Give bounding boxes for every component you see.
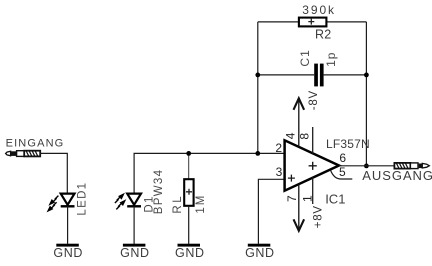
svg-text:GND: GND <box>245 246 275 260</box>
svg-text:1p: 1p <box>324 52 338 67</box>
pin 4 negative supply arrow <box>294 98 305 147</box>
svg-text:+8V: +8V <box>313 205 325 228</box>
op-amp input plus mark <box>288 175 295 182</box>
connector X1 input jack <box>6 151 41 157</box>
capacitor C1 <box>298 49 338 86</box>
D1 light arrows (incoming) <box>115 194 125 209</box>
svg-text:2: 2 <box>275 141 282 155</box>
svg-text:AUSGANG: AUSGANG <box>362 168 432 183</box>
op-amp IC1 LF357N <box>275 132 370 206</box>
resistor R2 <box>299 3 336 41</box>
ground GND3 <box>175 244 205 260</box>
wire RL top lead <box>188 153 190 179</box>
wire D1 to ground <box>133 206 135 244</box>
svg-text:GND: GND <box>120 246 150 260</box>
wire pin3 to ground <box>258 179 284 244</box>
op-amp center plus mark <box>309 162 317 170</box>
LED LED1 <box>48 182 89 216</box>
svg-text:GND: GND <box>175 246 205 260</box>
svg-text:4: 4 <box>283 132 297 139</box>
wire LED1 to ground <box>67 206 69 244</box>
svg-text:7: 7 <box>285 195 299 202</box>
svg-text:LF357N: LF357N <box>326 137 370 151</box>
svg-text:IC1: IC1 <box>325 191 345 206</box>
svg-text:5: 5 <box>339 165 346 179</box>
svg-text:GND: GND <box>53 246 83 260</box>
ground GND1 <box>53 244 83 260</box>
photodiode D1 BPW34 <box>115 169 165 215</box>
wire output net <box>339 165 394 167</box>
svg-text:RL: RL <box>172 194 184 214</box>
wire photodiode net (D1 / RL / pin2) <box>134 153 285 193</box>
svg-text:6: 6 <box>339 151 346 165</box>
connector X2 output jack <box>394 163 429 169</box>
svg-text:LED1: LED1 <box>77 182 89 216</box>
wire C1 run <box>258 74 367 76</box>
svg-text:BPW34: BPW34 <box>153 169 165 215</box>
ground GND4 <box>245 244 275 260</box>
svg-text:3: 3 <box>276 165 283 179</box>
pin 7 positive supply arrow <box>294 184 305 231</box>
svg-text:8: 8 <box>298 133 312 140</box>
resistor RL <box>172 179 207 213</box>
wire feedback right vertical <box>365 22 367 166</box>
wire RL to ground <box>188 206 190 244</box>
svg-text:R2: R2 <box>315 28 331 42</box>
ground GND2 <box>120 244 150 260</box>
svg-text:-8V: -8V <box>308 90 320 110</box>
wire feedback top run <box>258 21 367 23</box>
pin 8 stub <box>312 127 314 154</box>
pin 1 stub <box>312 177 314 204</box>
svg-text:C1: C1 <box>298 49 312 66</box>
svg-text:390k: 390k <box>302 3 336 17</box>
wire feedback left vertical <box>257 22 259 154</box>
svg-text:EINGANG: EINGANG <box>6 137 65 149</box>
wire input net <box>40 153 67 193</box>
svg-text:1M: 1M <box>195 194 207 214</box>
LED1 light arrows (emitting) <box>48 196 58 211</box>
pin 5 bent stub <box>331 170 353 179</box>
junction node dots <box>186 151 191 156</box>
